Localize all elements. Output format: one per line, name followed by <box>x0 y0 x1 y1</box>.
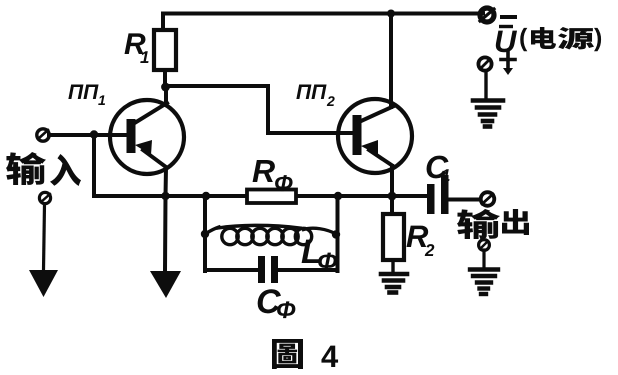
label R2 <box>407 226 429 247</box>
wire Q1 collector lead <box>164 87 168 103</box>
node bus / filter-left junction <box>202 192 210 200</box>
label input (shuru) <box>6 152 46 185</box>
wire top supply bus <box>163 14 483 32</box>
wire power ground lead <box>484 71 487 100</box>
label PP1 <box>68 85 98 99</box>
terminal output ground post <box>479 240 490 251</box>
wire output ground lead <box>482 250 485 269</box>
label C-phi <box>258 289 281 313</box>
label R1 <box>125 33 146 54</box>
ground below R2 <box>381 274 407 293</box>
label C1 <box>427 156 449 179</box>
capacitor C1 <box>427 175 449 214</box>
wire input junction down to bottom bus <box>92 135 96 196</box>
label minus sign <box>502 15 515 19</box>
resistor R1 <box>154 30 176 70</box>
resistor R2 <box>383 214 404 260</box>
wire filter bottom right segment <box>278 268 338 272</box>
terminal input ground post <box>39 192 50 203</box>
label U-bar supply voltage <box>496 31 517 53</box>
wire filter left vertical <box>203 196 207 271</box>
terminal power negative <box>480 8 494 22</box>
resistor RF (R-phi) <box>247 190 296 204</box>
inductor LF (L-phi) coil <box>205 225 336 244</box>
node Q1 emitter / bus junction <box>161 192 169 200</box>
node coil right junction <box>332 230 340 238</box>
terminal power positive <box>478 57 491 70</box>
ground below Q1 emitter <box>150 271 181 298</box>
wire filter right vertical <box>336 196 340 271</box>
wire C1 to output terminal <box>448 198 480 202</box>
wire input ground lead <box>44 204 45 270</box>
label plus polarity arrow <box>501 52 515 75</box>
wire Q2 emitter lead <box>390 166 394 216</box>
label L-phi <box>302 240 320 263</box>
node top bus / Q2 collector junction <box>387 10 395 18</box>
node input/base junction <box>90 130 98 138</box>
wire R1 bottom lead <box>163 70 167 88</box>
label PP2 <box>296 85 326 99</box>
ground below input <box>29 270 58 297</box>
capacitor CF (C-phi) <box>258 256 278 283</box>
transistor Q1 (PP1) <box>110 100 184 174</box>
wire filter bottom left segment <box>205 268 258 272</box>
transistor Q2 (PP2) <box>338 99 412 173</box>
node bus / filter-right junction <box>334 192 342 200</box>
label R-phi <box>253 160 275 182</box>
label output (shuchu) <box>457 209 500 239</box>
node Q2 emitter / bus junction <box>388 192 397 201</box>
label (dianyuan) power source <box>520 28 527 51</box>
wire Q2 collector vertical <box>389 14 393 108</box>
label figure caption <box>272 339 303 369</box>
wire input to Q1 base <box>49 133 127 137</box>
node coil left junction <box>201 230 209 238</box>
wire R2 bottom lead <box>391 260 394 274</box>
terminal output signal <box>481 192 495 206</box>
ground below power terminal <box>473 101 503 127</box>
wire R1 junction to Q2 base <box>166 86 352 133</box>
wire Q1 emitter lead down through bus to ground <box>165 168 166 271</box>
wire bottom bus <box>94 194 427 198</box>
terminal input signal <box>37 129 49 141</box>
node R1/Q1 collector junction <box>161 83 170 92</box>
ground below output <box>470 270 498 295</box>
